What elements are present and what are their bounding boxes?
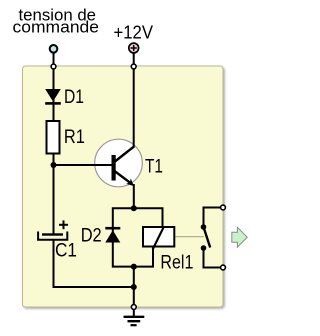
svg-text:T1: T1 — [145, 157, 163, 178]
svg-text:+12V: +12V — [114, 22, 154, 43]
svg-text:Rel1: Rel1 — [160, 253, 193, 274]
svg-text:commande: commande — [13, 17, 100, 36]
svg-text:R1: R1 — [64, 127, 85, 148]
svg-text:D2: D2 — [81, 226, 102, 247]
svg-text:C1: C1 — [55, 241, 77, 262]
svg-text:D1: D1 — [64, 87, 84, 108]
